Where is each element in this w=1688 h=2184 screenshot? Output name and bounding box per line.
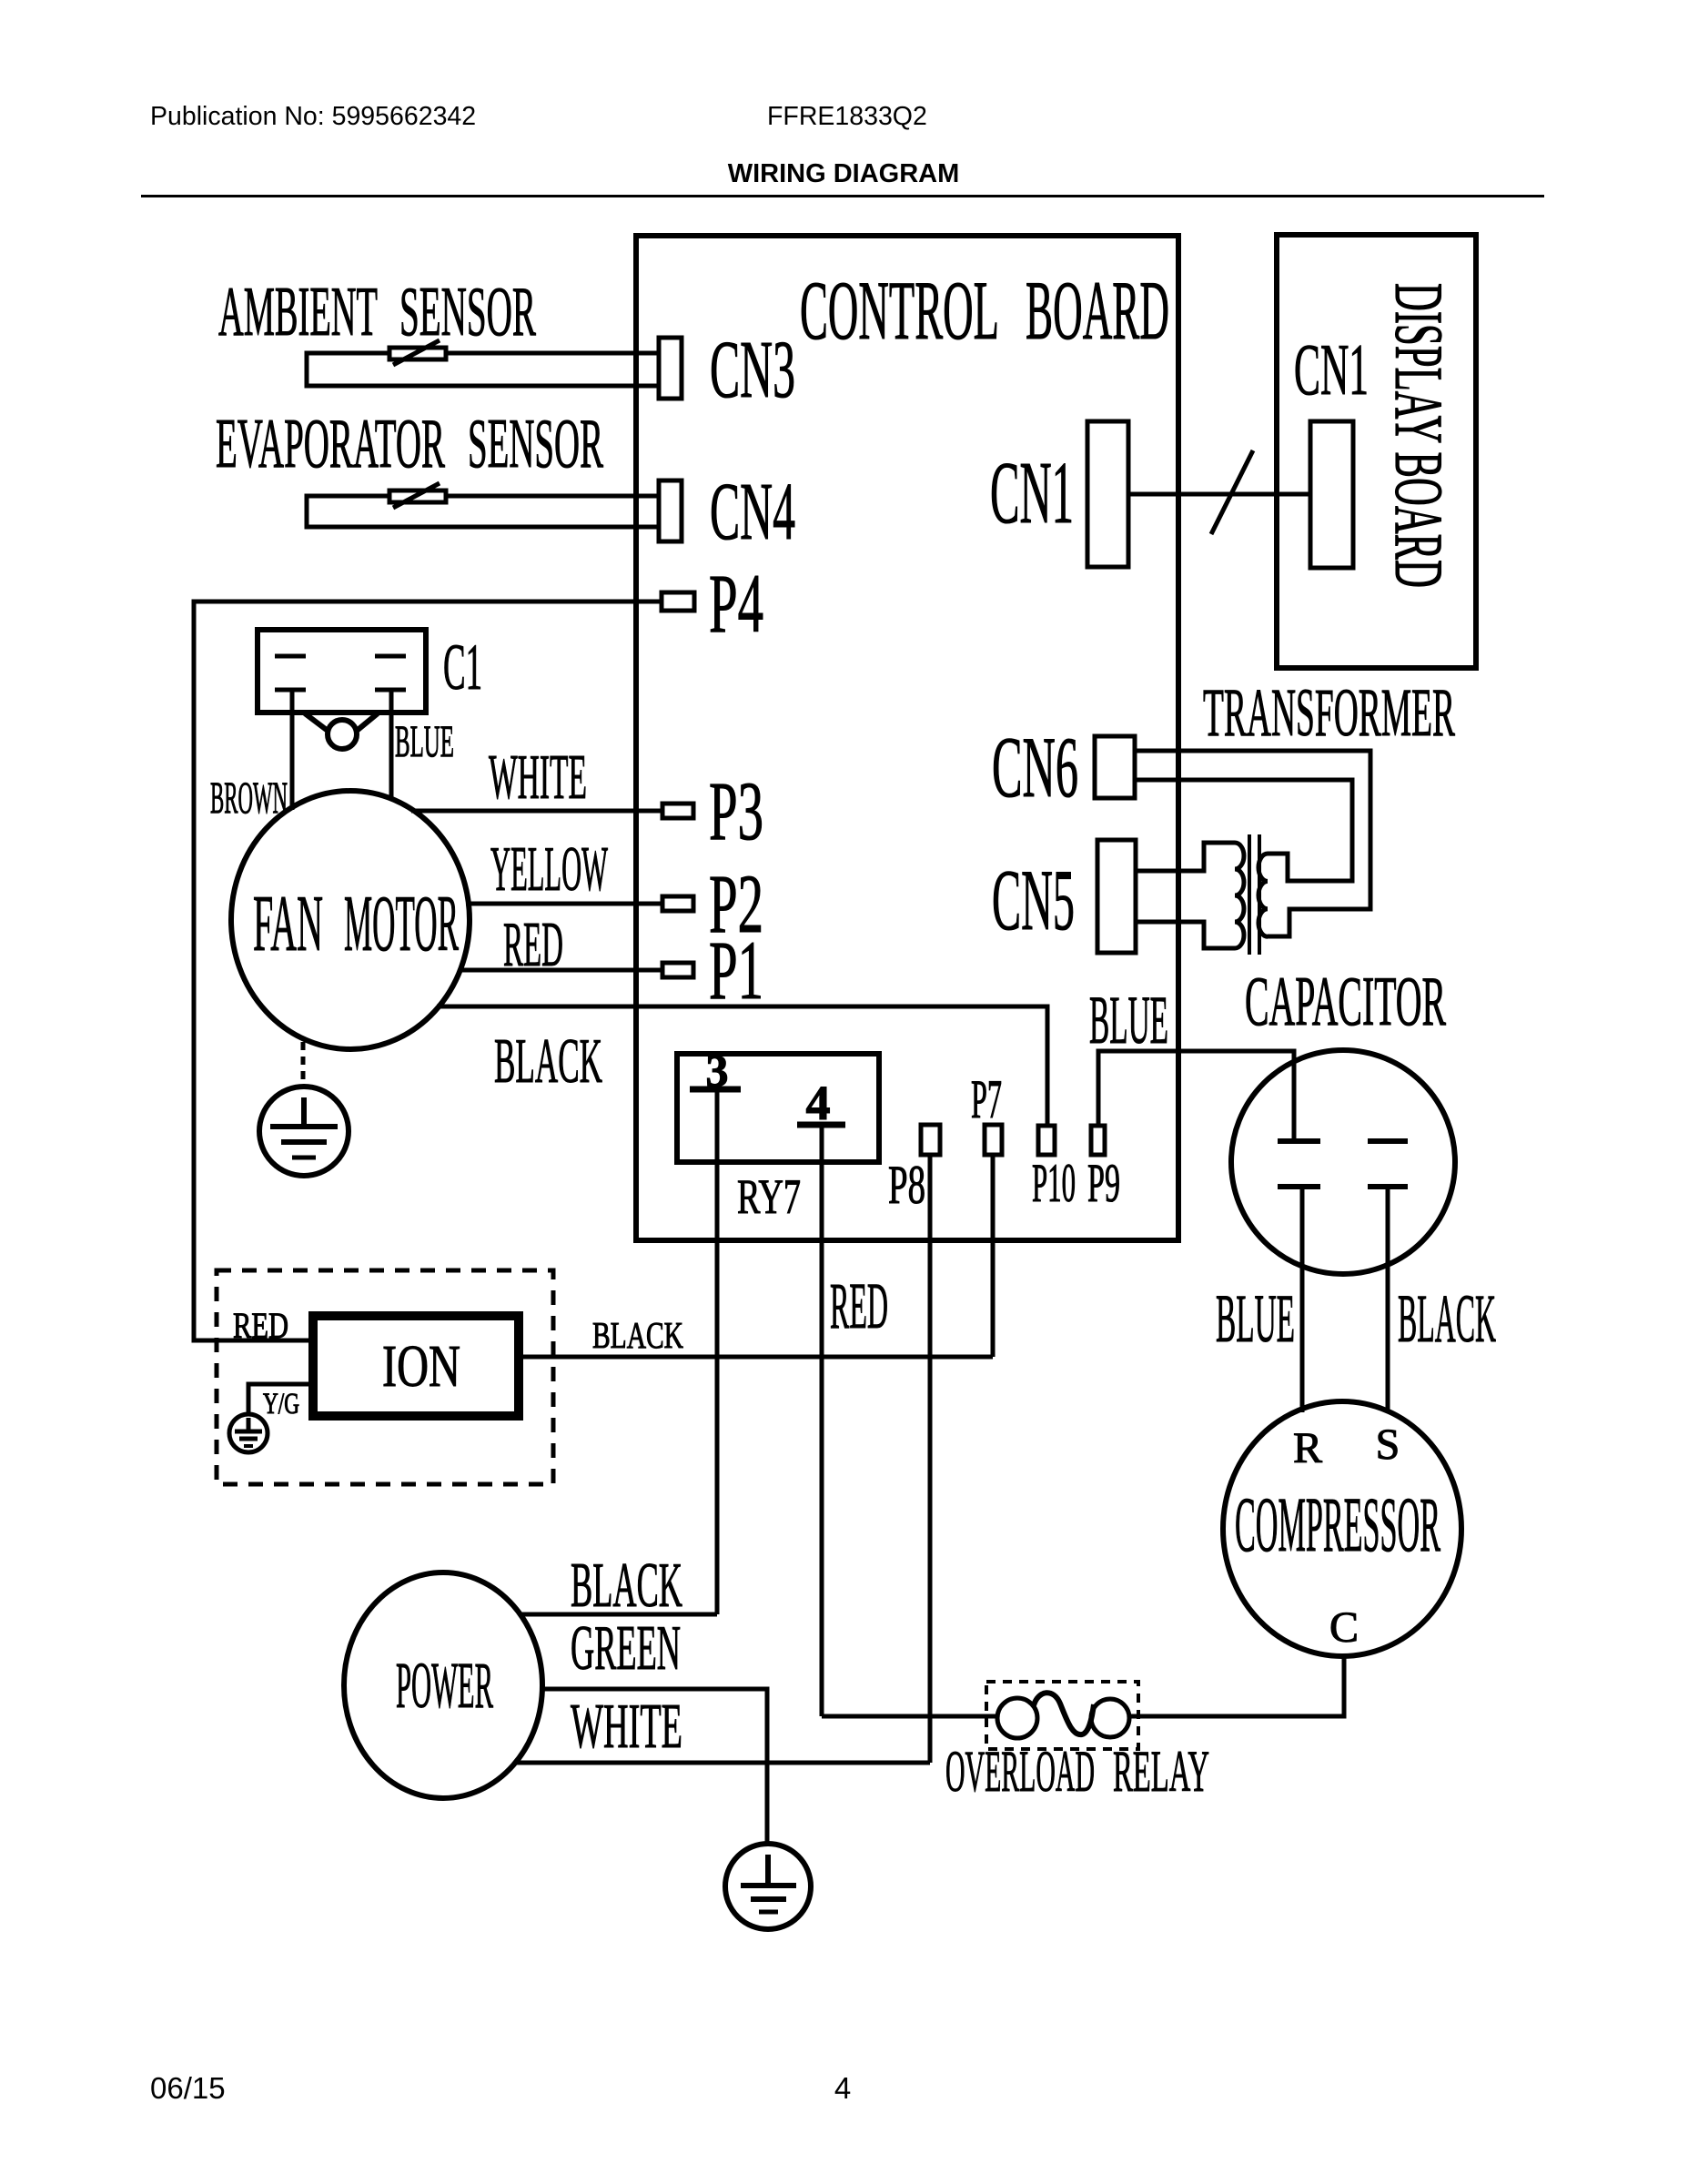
capacitor circle — [1231, 1050, 1455, 1274]
svg-text:POWER: POWER — [396, 1649, 493, 1722]
transformer primary winding — [1235, 843, 1244, 948]
svg-text:FFRE1833Q2: FFRE1833Q2 — [767, 102, 927, 131]
connector CN1 control board — [1087, 421, 1128, 567]
connector CN3 — [659, 338, 682, 399]
svg-text:BLUE: BLUE — [1216, 1281, 1295, 1357]
svg-text:BLACK: BLACK — [571, 1551, 682, 1621]
svg-text:P7: P7 — [971, 1069, 1002, 1129]
wire black fan to P10 — [437, 1006, 1047, 1126]
svg-text:RY7: RY7 — [737, 1169, 801, 1224]
connector P2 — [662, 896, 693, 911]
svg-text:Publication No: 5995662342: Publication No: 5995662342 — [150, 102, 476, 131]
svg-text:P9: P9 — [1087, 1153, 1120, 1213]
compressor circle — [1223, 1401, 1461, 1656]
capacitor right plates — [1368, 1138, 1408, 1144]
ION box — [313, 1316, 519, 1416]
svg-text:P4: P4 — [709, 557, 763, 650]
connector P7 — [985, 1125, 1002, 1155]
wire P4 to left loop — [194, 602, 662, 1340]
transformer core — [1248, 834, 1251, 955]
capacitor left plates — [1278, 1138, 1320, 1144]
evaporator sensor thermistor body — [389, 490, 446, 502]
ION dashed box — [217, 1270, 553, 1484]
wire ION black to P7 — [519, 1355, 993, 1360]
svg-text:AMBIENT: AMBIENT — [218, 272, 378, 350]
svg-text:CONTROL: CONTROL — [800, 264, 999, 357]
wire RY7-3 to power black — [715, 1089, 720, 1614]
svg-text:P3: P3 — [709, 764, 763, 857]
transformer secondary winding — [1258, 854, 1268, 936]
svg-text:4: 4 — [834, 2071, 851, 2105]
wire P8 to power white — [928, 1155, 933, 1763]
wire P9 blue to capacitor — [1098, 1051, 1294, 1140]
svg-text:CAPACITOR: CAPACITOR — [1245, 962, 1446, 1040]
svg-text:06/15: 06/15 — [150, 2071, 226, 2105]
C1 V circle — [328, 720, 357, 749]
ambient sensor thermistor slash — [393, 340, 440, 365]
svg-text:CN1: CN1 — [1294, 330, 1369, 410]
fan motor circle — [231, 791, 470, 1049]
wire black power to RY7-3 — [521, 1613, 717, 1617]
svg-text:C1: C1 — [443, 631, 482, 703]
svg-text:CN3: CN3 — [710, 325, 795, 415]
wire white power to P8 — [515, 1761, 930, 1765]
svg-text:BLACK: BLACK — [592, 1314, 683, 1356]
bus slash on CN1 wire — [1211, 450, 1253, 534]
display board box — [1277, 235, 1476, 668]
ION ground symbol — [229, 1414, 268, 1452]
connector CN1 display board — [1310, 421, 1353, 568]
RY7 pin 3 underline — [690, 1087, 741, 1093]
svg-text:BOARD: BOARD — [1026, 264, 1169, 357]
wire RY7-4 to overload relay — [820, 1127, 824, 1716]
svg-text:BLACK: BLACK — [1398, 1281, 1496, 1357]
RY7 pin 4 underline — [797, 1122, 845, 1128]
svg-text:RED: RED — [503, 910, 563, 980]
svg-text:WHITE: WHITE — [571, 1692, 682, 1762]
svg-text:DISPLAY BOARD: DISPLAY BOARD — [1380, 283, 1456, 588]
wire CN6 top to transformer secondary bottom — [1136, 751, 1370, 936]
svg-text:P8: P8 — [888, 1155, 925, 1215]
svg-text:P1: P1 — [709, 924, 763, 1016]
connector CN5 — [1097, 840, 1136, 953]
svg-text:SENSOR: SENSOR — [468, 404, 603, 482]
wire red fan to P1 — [459, 968, 662, 973]
wire CN6 bottom to transformer secondary top — [1136, 780, 1352, 881]
overload relay dashed box — [986, 1682, 1138, 1749]
overload relay right terminal circle — [1091, 1699, 1129, 1737]
svg-text:EVAPORATOR: EVAPORATOR — [216, 404, 445, 482]
fan motor ground dashed wire — [301, 1042, 306, 1085]
capacitor C1 box — [258, 630, 426, 713]
wire relay left to RY7-4 — [822, 1714, 997, 1719]
connector P9 — [1091, 1126, 1105, 1155]
svg-text:BLUE: BLUE — [1089, 983, 1168, 1058]
svg-text:CN5: CN5 — [992, 852, 1075, 948]
wire CN5 bottom to transformer primary — [1136, 922, 1235, 948]
ambient sensor wire loop — [307, 353, 659, 386]
svg-text:BROWN: BROWN — [210, 772, 288, 823]
overload relay left terminal circle — [997, 1698, 1037, 1738]
svg-text:CN6: CN6 — [992, 719, 1078, 815]
svg-text:MOTOR: MOTOR — [344, 880, 459, 968]
svg-text:WIRING DIAGRAM: WIRING DIAGRAM — [728, 159, 960, 188]
svg-text:BLUE: BLUE — [395, 715, 454, 766]
control board box — [636, 236, 1178, 1240]
svg-text:Y/G: Y/G — [263, 1388, 299, 1421]
svg-text:CN1: CN1 — [990, 444, 1074, 542]
wire black capacitor to compressor S — [1386, 1187, 1390, 1410]
wire ION Y/G to ground — [248, 1384, 313, 1414]
svg-text:OVERLOAD: OVERLOAD — [945, 1739, 1095, 1805]
wire P7 to ION black — [991, 1155, 996, 1357]
C1 left capacitor plates — [275, 654, 306, 659]
connector P10 — [1038, 1126, 1055, 1155]
wire white fan to P3 — [411, 809, 662, 814]
wire compressor C to overload relay — [1129, 1656, 1344, 1716]
power circle — [344, 1572, 542, 1798]
relay RY7 box — [677, 1054, 879, 1162]
svg-text:SENSOR: SENSOR — [399, 272, 536, 350]
svg-text:FAN: FAN — [253, 880, 323, 968]
svg-text:C: C — [1329, 1603, 1359, 1652]
svg-text:RELAY: RELAY — [1113, 1739, 1209, 1805]
connector CN4 — [659, 480, 682, 541]
svg-text:WHITE: WHITE — [489, 743, 587, 813]
svg-text:ION: ION — [382, 1333, 460, 1400]
svg-text:R: R — [1293, 1424, 1322, 1472]
svg-text:RED: RED — [830, 1269, 888, 1342]
ambient sensor thermistor body — [389, 348, 446, 359]
svg-text:COMPRESSOR: COMPRESSOR — [1235, 1481, 1440, 1568]
wire CN5 top to transformer primary — [1136, 843, 1235, 871]
wire brown C1 to fan motor — [290, 690, 295, 810]
connector P4 — [662, 592, 694, 611]
wire yellow fan to P2 — [466, 902, 662, 906]
wire green power to ground — [542, 1689, 767, 1844]
wire CN1 to display board — [1128, 492, 1310, 497]
overload relay heater wavy link — [1034, 1693, 1094, 1734]
connector P3 — [662, 804, 693, 818]
connector P1 — [662, 963, 693, 977]
evaporator sensor wire loop — [307, 496, 659, 527]
C1 right capacitor plates — [375, 654, 406, 659]
svg-text:GREEN: GREEN — [571, 1613, 681, 1683]
wire blue capacitor to compressor R — [1300, 1187, 1305, 1412]
svg-text:TRANSFORMER: TRANSFORMER — [1203, 675, 1455, 751]
svg-text:YELLOW: YELLOW — [490, 834, 608, 905]
svg-text:S: S — [1376, 1421, 1400, 1469]
connector CN6 — [1095, 736, 1135, 798]
power ground symbol — [725, 1844, 811, 1929]
svg-text:P10: P10 — [1032, 1153, 1076, 1213]
svg-text:CN4: CN4 — [710, 467, 795, 557]
svg-text:RED: RED — [233, 1305, 288, 1346]
C1 V linkage — [305, 713, 339, 739]
fan motor ground symbol — [259, 1087, 349, 1176]
connector P8 — [921, 1125, 940, 1155]
header rule — [141, 195, 1544, 197]
wire blue C1 to fan motor — [389, 690, 394, 801]
evaporator sensor thermistor slash — [393, 483, 440, 508]
svg-text:BLACK: BLACK — [494, 1026, 602, 1097]
